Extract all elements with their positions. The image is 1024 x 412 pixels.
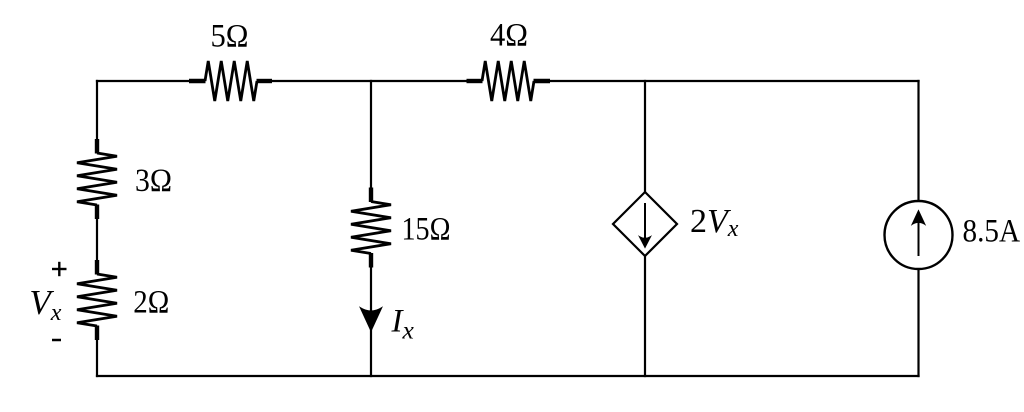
resistor R4 4ohm leads — [467, 79, 483, 83]
svg-text:2Ω: 2Ω — [133, 285, 169, 321]
wire middle branch lower — [370, 254, 372, 378]
wire top rail middle segment — [257, 80, 482, 82]
wire middle branch upper — [370, 80, 372, 202]
resistor R2 2ohm zigzag — [77, 274, 117, 326]
svg-text:2Vx: 2Vx — [690, 203, 739, 242]
resistor R2 2ohm leads — [95, 260, 99, 275]
wire right branch lower — [917, 268, 919, 377]
wire dependent-source branch upper — [644, 80, 646, 193]
svg-text:3Ω: 3Ω — [135, 163, 172, 199]
svg-text:Ix: Ix — [391, 304, 415, 345]
wire left branch upper — [96, 80, 98, 153]
resistor R4 4ohm zigzag — [482, 61, 534, 101]
svg-text:4Ω: 4Ω — [490, 18, 528, 54]
wire right branch upper — [917, 80, 919, 202]
wire bottom rail — [96, 375, 920, 377]
svg-text:Vx: Vx — [29, 283, 61, 326]
wire dependent-source branch lower — [644, 255, 646, 377]
resistor R3 3ohm zigzag — [77, 153, 117, 205]
current source I1 circle — [885, 201, 953, 269]
current arrow Ix head — [360, 308, 382, 331]
resistor R5 5ohm zigzag — [205, 61, 257, 101]
wire top rail right segment — [534, 80, 920, 82]
svg-text:5Ω: 5Ω — [211, 19, 249, 55]
wire left branch lower — [96, 326, 98, 377]
resistor R5 5ohm leads — [189, 79, 206, 83]
svg-text:8.5A: 8.5A — [963, 214, 1021, 250]
wire left branch middle — [96, 205, 98, 274]
resistor R15 15ohm leads — [369, 188, 373, 203]
label plus sign — [52, 268, 67, 270]
label minus sign — [52, 339, 61, 342]
dependent source U1 diamond — [613, 192, 677, 256]
resistor R15 15ohm zigzag — [351, 202, 391, 254]
wire top rail left segment — [96, 80, 205, 82]
current source I1 arrow — [918, 221, 920, 256]
resistor R3 3ohm leads — [95, 139, 99, 154]
dependent source U1 arrow — [644, 203, 646, 242]
svg-text:15Ω: 15Ω — [402, 212, 451, 248]
